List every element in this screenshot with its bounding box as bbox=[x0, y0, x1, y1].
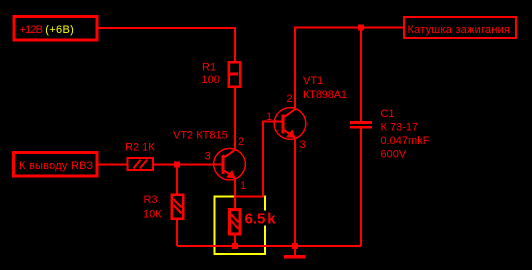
svg-text:К выводу RВЗ: К выводу RВЗ bbox=[19, 160, 93, 172]
svg-text:0.047mkF: 0.047mkF bbox=[381, 135, 430, 147]
svg-text:VT2 КТ815: VT2 КТ815 bbox=[173, 130, 228, 142]
svg-text:Катушка зажигания: Катушка зажигания bbox=[408, 24, 511, 36]
svg-text:k: k bbox=[267, 211, 276, 228]
svg-text:100: 100 bbox=[202, 74, 220, 86]
svg-text:600V: 600V bbox=[381, 149, 407, 161]
svg-text:1: 1 bbox=[266, 111, 272, 123]
svg-text:10К: 10К bbox=[143, 209, 162, 221]
svg-text:6.5: 6.5 bbox=[245, 211, 266, 228]
svg-text:КТ898А1: КТ898А1 bbox=[303, 89, 347, 101]
svg-text:R1: R1 bbox=[202, 62, 216, 74]
svg-text:R2 1К: R2 1К bbox=[125, 142, 155, 154]
svg-text:2: 2 bbox=[238, 136, 244, 148]
svg-text:+12В: +12В bbox=[20, 24, 44, 36]
svg-text:R3: R3 bbox=[144, 194, 158, 206]
svg-text:3: 3 bbox=[300, 139, 306, 151]
svg-text:1: 1 bbox=[240, 180, 246, 192]
svg-text:К 73-17: К 73-17 bbox=[381, 122, 419, 134]
svg-text:2: 2 bbox=[287, 93, 293, 105]
svg-text:C1: C1 bbox=[381, 108, 395, 120]
svg-text:(+6В): (+6В) bbox=[45, 24, 74, 36]
svg-text:3: 3 bbox=[205, 151, 211, 163]
svg-text:VT1: VT1 bbox=[303, 75, 323, 87]
